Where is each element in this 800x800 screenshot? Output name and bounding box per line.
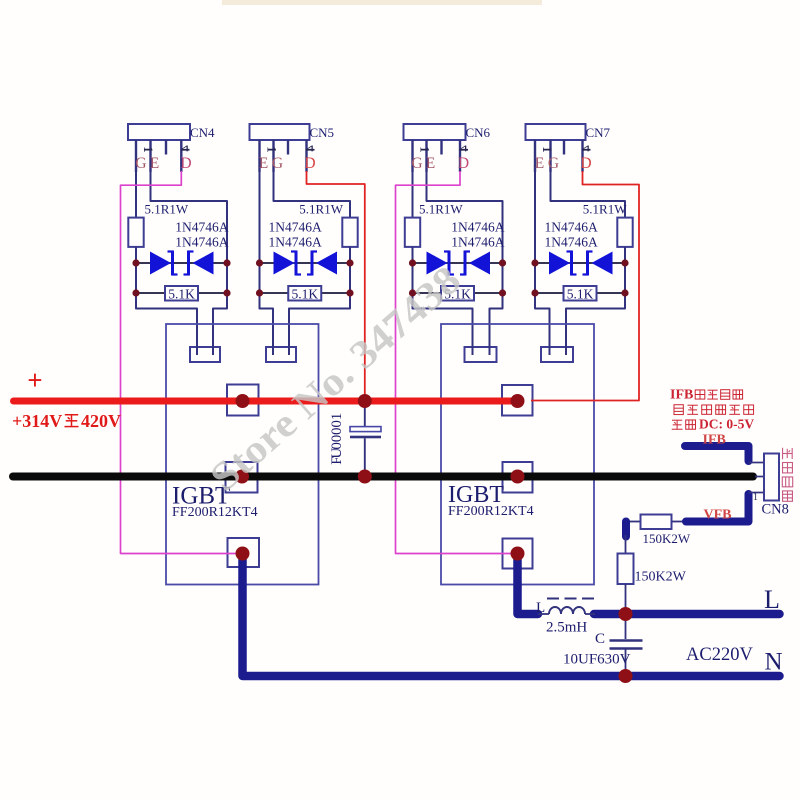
svg-text:10UF630V: 10UF630V: [563, 652, 631, 668]
CN4 pin 4: [180, 140, 182, 172]
wire CN4 E pin jog to right rail: [151, 172, 228, 263]
pin stubs U1 gate2: [272, 346, 274, 355]
svg-text:C: C: [595, 631, 605, 647]
junction: [531, 259, 538, 266]
svg-text:0: 0: [329, 420, 345, 428]
CN4 pin 2: [149, 140, 151, 172]
junction: [499, 289, 506, 296]
CN6 pin 3: [440, 140, 442, 155]
wire resistor to zener row: [135, 247, 137, 263]
wire loop bottom left to gate pin: [260, 308, 274, 356]
CN5 pin 3: [287, 140, 289, 155]
svg-text:1N4746A: 1N4746A: [451, 220, 504, 235]
wire U1 emitter to N line: [243, 555, 780, 676]
CN8 pin3 wire: [749, 492, 765, 494]
svg-text:5.1R1W: 5.1R1W: [145, 202, 189, 217]
svg-text:420V: 420V: [81, 411, 121, 431]
connector CN4: [128, 124, 190, 140]
decorative top smudge: [222, 0, 542, 5]
wire 5.1K row: [535, 292, 625, 294]
junction: [256, 289, 263, 296]
resistor R2 150K2W vertical: [625, 535, 627, 554]
svg-text:4: 4: [178, 145, 192, 152]
inductor L1 lead right: [585, 613, 595, 615]
zener diode CN7b 1N4746A: [592, 252, 613, 275]
svg-text:CN5: CN5: [310, 125, 335, 140]
svg-text:1N4746A: 1N4746A: [175, 220, 228, 235]
wire CN6 G pin to resistor: [412, 172, 414, 218]
svg-text:D: D: [458, 155, 469, 172]
svg-text:1N4746A: 1N4746A: [545, 235, 598, 250]
thick stub R1 left: [622, 522, 630, 537]
terminal box U1 emitter: [228, 538, 260, 567]
svg-text:+314V: +314V: [12, 411, 62, 431]
junction dot: [511, 394, 525, 408]
CN5 pin 4: [305, 140, 307, 172]
svg-text:FF200R12KT4: FF200R12KT4: [448, 504, 534, 519]
terminal box U2 emitter: [503, 539, 533, 569]
svg-text:4: 4: [580, 145, 594, 152]
junction dot: [619, 607, 633, 621]
junction: [409, 289, 416, 296]
svg-text:2.5mH: 2.5mH: [546, 620, 587, 636]
svg-text:L: L: [764, 585, 780, 614]
wire resistor to zener row: [412, 247, 414, 263]
VFB thick wire: [686, 494, 749, 522]
wire CN6 D magenta to U2 emitter: [396, 171, 516, 554]
pin stubs U1 gate1: [196, 346, 198, 355]
wire CN5 D red to +bus: [307, 171, 365, 399]
junction: [346, 259, 353, 266]
svg-text:1N4746A: 1N4746A: [269, 235, 322, 250]
negative black bus: [13, 473, 753, 481]
svg-text:D: D: [180, 155, 191, 172]
resistor CN6 5.1K: [441, 286, 474, 301]
svg-text:1: 1: [540, 146, 554, 152]
wire CN7 E pin left rail: [534, 172, 536, 309]
junction: [223, 259, 230, 266]
svg-text:4: 4: [457, 145, 471, 152]
CN4 pin 1: [135, 140, 137, 172]
zener diode CN6b 1N4746A: [469, 252, 490, 275]
svg-text:E: E: [426, 155, 435, 172]
wire loop bottom left to gate pin: [413, 308, 473, 356]
label zhi-kong-zhi-ban rotated: [783, 448, 793, 459]
wire zener row: [260, 262, 351, 264]
CN7 pin 4: [581, 140, 583, 172]
svg-text:DC: 0-5V: DC: 0-5V: [699, 417, 754, 432]
resistor CN5 5.1R1W: [342, 218, 357, 247]
junction: [409, 259, 416, 266]
wire loop bottom left to gate pin: [535, 308, 550, 356]
svg-text:D: D: [304, 155, 315, 172]
CN8 pin1 wire: [749, 462, 765, 464]
CN7 pin 2: [549, 140, 551, 172]
junction: [223, 289, 230, 296]
pin stubs U2 gate2: [549, 346, 551, 355]
svg-text:IFB: IFB: [670, 388, 693, 403]
svg-text:4: 4: [304, 145, 318, 152]
CN6 pin 2: [425, 140, 427, 172]
wire black bus to CN8: [755, 476, 764, 478]
zener diode CN6a 1N4746A: [427, 252, 448, 275]
inductor L1 core dashes: [547, 598, 559, 600]
CN4 pin 3: [165, 140, 167, 155]
junction: [256, 259, 263, 266]
resistor CN6 5.1R1W: [405, 218, 420, 247]
resistor CN5 5.1K: [288, 286, 321, 301]
wire 5.1K row: [413, 292, 503, 294]
capacitor C1 bottom plate: [350, 436, 381, 439]
connector CN7: [526, 124, 586, 140]
svg-text:150K2W: 150K2W: [635, 570, 687, 585]
wire right rail: [624, 263, 626, 309]
capacitor C1 10000UF wire top: [364, 401, 366, 426]
terminal box U2 gate2: [541, 347, 573, 362]
zener diode CN4a 1N4746A: [150, 252, 171, 275]
junction: [621, 289, 628, 296]
capacitor C1 top plate: [350, 427, 381, 432]
svg-text:5.1K: 5.1K: [168, 286, 195, 301]
svg-text:1N4746A: 1N4746A: [451, 235, 504, 250]
wire right rail: [502, 263, 504, 309]
wire loop bottom left to gate pin: [136, 308, 197, 356]
terminal box U2 collector: [502, 385, 533, 416]
wire CN5 E pin left rail: [259, 172, 261, 309]
svg-text:1: 1: [753, 492, 758, 503]
wire right rail: [349, 263, 351, 309]
zener diode CN5a 1N4746A: [274, 252, 295, 275]
resistor CN7 5.1K: [564, 286, 597, 301]
junction dot: [511, 470, 525, 484]
CN7 pin 1: [534, 140, 536, 172]
svg-text:1N4746A: 1N4746A: [269, 220, 322, 235]
CN6 pin 1: [411, 140, 413, 172]
junction dot: [235, 470, 249, 484]
svg-text:CN4: CN4: [190, 125, 215, 140]
L line thick: [594, 610, 780, 619]
CN5 pin 1: [258, 140, 260, 172]
+314V red bus: [14, 398, 518, 405]
capacitor C2 plates: [610, 639, 643, 642]
junction dot: [511, 547, 525, 561]
svg-text:1: 1: [329, 413, 345, 421]
svg-text:5.1R1W: 5.1R1W: [299, 202, 343, 217]
wire resistor to zener row: [624, 247, 626, 263]
wire U2 emitter down to inductor: [518, 555, 539, 614]
wire 5.1K row: [136, 292, 227, 294]
CN7 pin 3: [563, 140, 565, 155]
terminal box U2 gate1: [465, 347, 497, 362]
svg-text:G: G: [548, 155, 559, 172]
terminal box U1 gate2: [266, 347, 296, 362]
svg-text:CN6: CN6: [466, 125, 491, 140]
capacitor C2 wire top: [625, 614, 627, 639]
svg-text:G: G: [272, 155, 283, 172]
svg-text:150K2W: 150K2W: [643, 531, 691, 546]
svg-text:N: N: [765, 649, 783, 676]
svg-text:G: G: [135, 155, 146, 172]
svg-text:VFB: VFB: [704, 508, 732, 523]
svg-text:E: E: [535, 155, 544, 172]
inductor L1 lead left: [538, 613, 549, 615]
junction dot: [358, 470, 372, 484]
wire loop bottom right to gate pin: [566, 308, 625, 356]
svg-text:1N4746A: 1N4746A: [175, 235, 228, 250]
CN6 pin 4: [459, 140, 461, 172]
junction dot: [236, 394, 250, 408]
svg-text:5.1R1W: 5.1R1W: [583, 202, 627, 217]
wire left rail: [135, 263, 137, 309]
CN5 pin 2: [272, 140, 274, 172]
connector CN8: [764, 454, 779, 501]
wire loop bottom right to gate pin: [213, 308, 227, 356]
svg-text:AC220V: AC220V: [686, 645, 753, 665]
junction: [621, 259, 628, 266]
svg-text:1N4746A: 1N4746A: [545, 220, 598, 235]
resistor CN4 5.1R1W: [128, 218, 143, 247]
junction dot: [236, 547, 250, 561]
junction: [132, 259, 139, 266]
svg-text:5.1R1W: 5.1R1W: [419, 202, 463, 217]
terminal box U1 mid: [226, 462, 258, 493]
wire 5.1K row: [260, 292, 351, 294]
junction: [132, 289, 139, 296]
svg-text:G: G: [411, 155, 422, 172]
svg-text:L: L: [536, 600, 545, 616]
svg-text:0: 0: [329, 427, 345, 435]
connector CN6: [404, 124, 466, 140]
terminal box U2 mid: [503, 462, 533, 493]
junction: [499, 259, 506, 266]
capacitor C1 wire bottom: [364, 438, 366, 476]
wire CN5 G pin jog to resistor: [274, 172, 351, 218]
label line3 output DC 0-5V: [672, 420, 683, 429]
wire CN6 E pin jog to right rail: [427, 172, 503, 263]
wire resistor to zener row: [349, 247, 351, 263]
svg-text:F: F: [329, 456, 345, 464]
svg-text:0: 0: [329, 435, 345, 443]
IFB thick wire: [685, 446, 749, 461]
junction dot: [358, 394, 372, 408]
terminal box U1 collector: [227, 385, 259, 416]
svg-text:1: 1: [141, 146, 155, 152]
svg-text:IFB: IFB: [703, 433, 726, 448]
zener diode CN4b 1N4746A: [193, 252, 214, 275]
resistor R1 150K2W horizontal: [626, 521, 641, 523]
wire loop bottom right to gate pin: [490, 308, 503, 356]
zener diode CN7a 1N4746A: [549, 252, 570, 275]
wire zener row: [413, 262, 503, 264]
wire loop bottom right to gate pin: [289, 308, 350, 356]
svg-text:FF200R12KT4: FF200R12KT4: [172, 505, 258, 520]
wire CN4 D magenta to U1 emitter: [121, 171, 241, 554]
inductor L1 windings: [549, 607, 585, 614]
wire zener row: [136, 262, 227, 264]
svg-text:D: D: [580, 155, 591, 172]
svg-text:E: E: [150, 155, 159, 172]
pin stubs U2 gate1: [472, 346, 474, 355]
IGBT module U2 outline: [441, 324, 594, 585]
wire right rail: [226, 263, 228, 309]
svg-text:CN7: CN7: [586, 125, 611, 140]
svg-text:1: 1: [418, 146, 432, 152]
wire left rail: [412, 263, 414, 309]
svg-text:5.1K: 5.1K: [567, 286, 594, 301]
connector CN5: [250, 124, 310, 140]
zener diode CN5b 1N4746A: [316, 252, 337, 275]
label line2 hall sensor: [674, 405, 683, 415]
wire CN7 D red to U2 collector: [531, 171, 639, 401]
svg-text:+: +: [27, 365, 42, 395]
wire zener row: [535, 262, 625, 264]
svg-text:CN8: CN8: [762, 502, 789, 518]
junction: [531, 289, 538, 296]
junction dot: [619, 669, 633, 683]
svg-text:1: 1: [265, 146, 279, 152]
svg-text:5.1K: 5.1K: [291, 286, 318, 301]
resistor CN4 5.1K: [165, 286, 198, 301]
svg-text:E: E: [259, 155, 268, 172]
wire CN7 G pin jog to resistor: [551, 172, 626, 218]
junction: [346, 289, 353, 296]
resistor CN7 5.1R1W: [617, 218, 632, 247]
IGBT module U1 outline: [166, 324, 319, 585]
terminal box U1 gate1: [190, 347, 220, 362]
capacitor C2 wire bottom: [625, 649, 627, 677]
wire CN4 G pin to resistor: [135, 172, 137, 218]
